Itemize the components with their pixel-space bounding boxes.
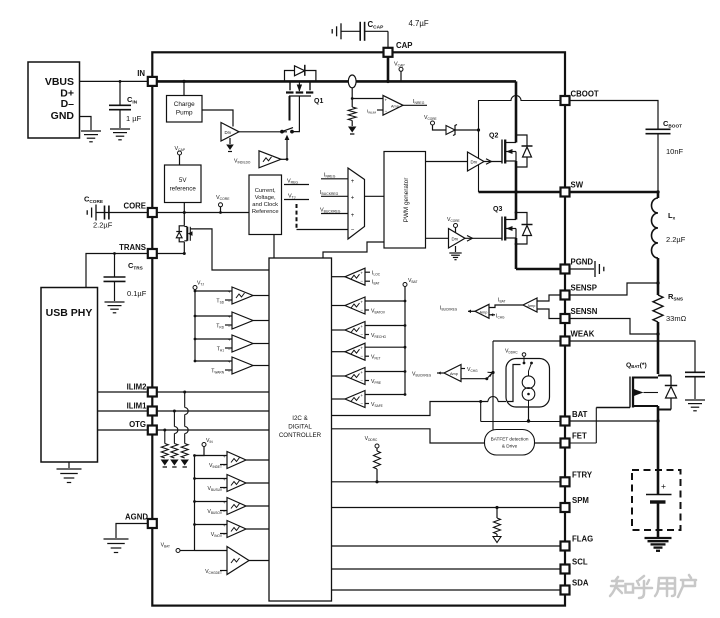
svg-text:Q3: Q3 [493, 206, 502, 213]
svg-text:PGND: PGND [571, 258, 594, 267]
svg-text:−: − [223, 509, 226, 514]
svg-text:Voltage,: Voltage, [255, 195, 276, 201]
svg-text:−: − [360, 279, 363, 284]
svg-text:CORE: CORE [123, 202, 146, 211]
svg-text:+: + [360, 324, 363, 329]
svg-text:SPM: SPM [572, 496, 589, 505]
svg-text:FLAG: FLAG [572, 535, 593, 544]
svg-text:IN: IN [137, 69, 145, 78]
svg-text:10nF: 10nF [666, 147, 684, 156]
svg-text:Amp: Amp [528, 304, 536, 308]
svg-text:DIGITAL: DIGITAL [288, 424, 312, 431]
svg-text:+: + [228, 338, 231, 343]
svg-text:−: − [351, 228, 355, 234]
svg-text:CAP: CAP [396, 41, 412, 50]
svg-text:+: + [360, 370, 363, 375]
svg-text:+: + [228, 360, 231, 365]
svg-text:+: + [360, 271, 363, 276]
svg-text:USB PHY: USB PHY [46, 307, 93, 319]
svg-text:SENSP: SENSP [571, 284, 597, 293]
svg-text:+: + [661, 481, 666, 491]
svg-text:−: − [360, 354, 363, 359]
svg-text:+: + [360, 346, 363, 351]
svg-text:+: + [385, 98, 388, 103]
svg-text:SW: SW [571, 181, 584, 190]
svg-text:FET: FET [572, 432, 587, 441]
svg-text:Drv: Drv [471, 160, 479, 165]
svg-text:2.2µF: 2.2µF [666, 235, 686, 244]
svg-text:and Clock: and Clock [252, 202, 278, 208]
svg-text:PWM generator: PWM generator [403, 177, 410, 223]
svg-text:−: − [223, 486, 226, 491]
svg-text:−: − [360, 378, 363, 383]
svg-text:WEAK: WEAK [571, 330, 595, 339]
svg-text:−: − [360, 332, 363, 337]
svg-text:Amp: Amp [391, 105, 399, 109]
svg-text:−: − [228, 299, 231, 304]
svg-text:33mΩ: 33mΩ [666, 314, 687, 323]
svg-text:Charge: Charge [174, 101, 195, 108]
svg-text:reference: reference [170, 186, 197, 193]
svg-text:−: − [223, 532, 226, 537]
svg-text:−: − [223, 463, 226, 468]
svg-text:& Drive: & Drive [502, 444, 518, 449]
svg-text:OTG: OTG [129, 420, 146, 429]
svg-text:CONTROLLER: CONTROLLER [279, 432, 322, 439]
svg-text:+: + [223, 500, 226, 505]
svg-text:FTRY: FTRY [572, 471, 593, 480]
svg-text:−: − [360, 308, 363, 313]
svg-text:5V: 5V [179, 177, 187, 184]
svg-text:−: − [228, 369, 231, 374]
svg-text:Q2: Q2 [489, 133, 498, 140]
svg-text:+: + [228, 315, 231, 320]
svg-text:AGND: AGND [125, 513, 148, 522]
svg-text:2.2µF: 2.2µF [93, 221, 113, 230]
svg-text:SDA: SDA [572, 579, 589, 588]
svg-text:+: + [223, 454, 226, 459]
svg-text:D–: D– [61, 98, 75, 110]
svg-text:TRANS: TRANS [119, 243, 146, 252]
svg-text:−: − [228, 347, 231, 352]
svg-text:+: + [223, 477, 226, 482]
svg-text:VBUS: VBUS [45, 76, 74, 88]
svg-text:CBOOT: CBOOT [571, 90, 599, 99]
svg-text:+: + [223, 523, 226, 528]
svg-text:Pump: Pump [176, 110, 193, 117]
svg-text:GND: GND [51, 110, 75, 122]
svg-text:+: + [228, 290, 231, 295]
svg-text:1 µF: 1 µF [126, 114, 142, 123]
svg-text:BATFET detection: BATFET detection [491, 437, 529, 442]
svg-text:Drv: Drv [452, 236, 460, 241]
svg-text:+: + [351, 196, 355, 202]
svg-text:−: − [228, 324, 231, 329]
svg-text:4.7µF: 4.7µF [409, 19, 429, 28]
svg-text:+: + [360, 393, 363, 398]
svg-text:I2C &: I2C & [292, 415, 308, 422]
svg-text:−: − [385, 109, 388, 114]
svg-text:ILIM2: ILIM2 [127, 383, 148, 392]
svg-text:−: − [360, 401, 363, 406]
svg-text:SENSN: SENSN [571, 307, 598, 316]
svg-text:0.1µF: 0.1µF [127, 289, 147, 298]
svg-text:ILIM1: ILIM1 [127, 402, 148, 411]
svg-text:Reference: Reference [252, 209, 279, 215]
svg-text:+: + [351, 213, 355, 219]
svg-text:SCL: SCL [572, 558, 588, 567]
svg-text:Drv: Drv [225, 130, 233, 135]
svg-text:Current,: Current, [255, 188, 276, 194]
svg-text:BAT: BAT [572, 410, 588, 419]
svg-text:+: + [360, 300, 363, 305]
svg-text:Q1: Q1 [314, 98, 323, 105]
svg-text:Amp: Amp [480, 310, 488, 314]
svg-text:Amp: Amp [450, 372, 458, 376]
svg-text:+: + [351, 179, 355, 185]
